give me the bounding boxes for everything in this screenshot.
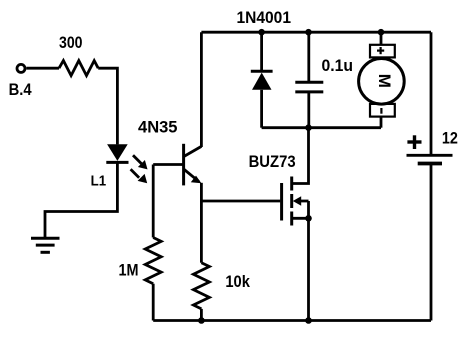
mosfet channel dashes xyxy=(290,177,293,226)
wire terminal to R300 xyxy=(26,67,59,70)
junction dot source-body xyxy=(305,215,312,222)
terminal B.4 xyxy=(17,64,25,72)
emitter wire xyxy=(200,183,203,201)
mosfet source lead xyxy=(292,217,309,220)
capacitor C1 branch xyxy=(295,32,323,128)
gate wire xyxy=(201,200,280,203)
ground xyxy=(31,238,60,252)
wire body to source xyxy=(307,201,310,218)
motor minus mark xyxy=(380,108,382,114)
svg-text:1M: 1M xyxy=(119,261,139,279)
junction dot flyback-drain xyxy=(305,124,312,131)
collector wire up to rail xyxy=(200,32,203,147)
svg-text:M: M xyxy=(375,74,394,88)
svg-text:12: 12 xyxy=(442,130,458,148)
resistor 300 xyxy=(59,61,98,76)
top rail xyxy=(201,31,431,34)
resistor 10k xyxy=(193,263,209,309)
mosfet body arrow xyxy=(293,196,309,206)
battery plus sign xyxy=(407,135,421,149)
wire 1M to bottom rail xyxy=(152,284,155,321)
wire LED to ground run xyxy=(45,162,117,238)
battery wire top xyxy=(430,32,433,155)
motor body xyxy=(359,59,405,105)
resistor 1M xyxy=(145,238,161,284)
battery B1 plates xyxy=(407,155,453,163)
battery wire bottom xyxy=(430,164,433,321)
svg-text:0.1u: 0.1u xyxy=(322,57,354,75)
junction dot rail-motor xyxy=(378,29,385,36)
junction dot bottom-source xyxy=(305,317,312,324)
svg-text:300: 300 xyxy=(59,33,83,52)
motor M branch wire top xyxy=(380,32,383,45)
light arrow 1 xyxy=(133,155,148,169)
motor plus terminal box xyxy=(370,45,395,58)
wire source to bottom rail xyxy=(307,218,310,320)
opto transistor U1 base bar xyxy=(182,144,185,186)
flyback rail xyxy=(262,126,381,129)
base to 1M wire xyxy=(152,165,155,238)
base wire xyxy=(153,163,183,166)
svg-text:L1: L1 xyxy=(91,172,107,189)
LED L1 xyxy=(106,144,128,162)
motor plus mark xyxy=(377,47,384,54)
mosfet Q1 gate bar xyxy=(280,183,283,221)
junction dot rail-diode xyxy=(258,29,265,36)
motor wire bottom xyxy=(380,117,383,128)
svg-text:BUZ73: BUZ73 xyxy=(249,153,296,171)
collector diagonal xyxy=(184,146,202,156)
diode D1 branch xyxy=(251,32,273,128)
wire R300 to LED xyxy=(98,68,117,144)
bottom rail xyxy=(153,319,431,322)
mosfet drain lead xyxy=(292,128,309,184)
svg-text:1N4001: 1N4001 xyxy=(237,8,292,27)
svg-text:B.4: B.4 xyxy=(9,81,33,99)
junction dot bottom-10k xyxy=(198,317,205,324)
wire 10k to bottom rail xyxy=(200,309,203,321)
light arrow 2 xyxy=(131,169,148,183)
motor minus terminal box xyxy=(370,104,395,117)
junction dot rail-cap xyxy=(305,29,312,36)
svg-text:10k: 10k xyxy=(225,273,250,291)
emitter diagonal with arrow xyxy=(184,169,202,183)
wire emitter node to 10k xyxy=(200,201,203,263)
svg-text:4N35: 4N35 xyxy=(138,118,178,137)
